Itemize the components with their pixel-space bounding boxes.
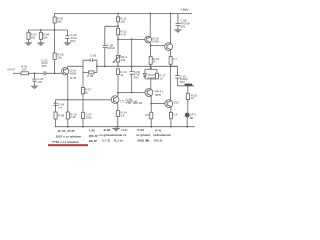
svg-text:TT80 x xx tahukan: TT80 x xx tahukan bbox=[52, 140, 79, 144]
wire Q7 emitter bbox=[150, 95, 152, 112]
svg-text:10k: 10k bbox=[57, 56, 62, 60]
wire Q5 collector to rail bbox=[149, 14, 151, 38]
svg-text:-: - bbox=[59, 118, 60, 122]
svg-text:1-08: 1-08 bbox=[89, 128, 95, 132]
svg-text:10k: 10k bbox=[120, 20, 125, 24]
resistor R-17 (bias loop right branch) bbox=[155, 69, 166, 80]
svg-text:R-09: R-09 bbox=[58, 113, 65, 117]
wire Q8 base row bbox=[151, 103, 165, 105]
svg-text:0,5: 0,5 bbox=[145, 113, 149, 117]
node input junction bbox=[34, 72, 36, 74]
diode D-01 (bias loop left branch) bbox=[143, 67, 157, 80]
resistor R-12 bbox=[117, 28, 127, 39]
svg-text:P-41: P-41 bbox=[155, 128, 162, 132]
wire bias node row bbox=[28, 30, 67, 32]
svg-text:2007 x xx tahukan: 2007 x xx tahukan bbox=[56, 134, 82, 138]
resistor R-10 (Q1 emitter to rail) bbox=[66, 112, 77, 127]
svg-text:50V: 50V bbox=[180, 80, 185, 84]
node VAS junction bbox=[117, 38, 119, 40]
wire bias to Q7 collector bbox=[150, 79, 152, 89]
svg-text:0,5: 0,5 bbox=[120, 114, 124, 118]
resistor R-07 (loop to ground chain) bbox=[82, 72, 92, 112]
capacitor C-04 bbox=[53, 103, 64, 110]
svg-text:33k: 33k bbox=[30, 36, 35, 40]
svg-text:50V: 50V bbox=[180, 24, 185, 28]
capacitor C-05 bbox=[176, 14, 191, 30]
node base junction Q1 bbox=[54, 72, 56, 74]
svg-text:50V: 50V bbox=[70, 39, 75, 43]
node bias junction bbox=[54, 29, 56, 31]
node Q8 base junction bbox=[150, 103, 152, 105]
svg-text:IN-PUT: IN-PUT bbox=[8, 69, 16, 71]
svg-text:+36V: +36V bbox=[181, 8, 190, 12]
resistor R-02 (rail dropper on left column) bbox=[53, 16, 64, 23]
resistor R-15 bbox=[149, 46, 159, 70]
wire top positive rail bbox=[55, 14, 193, 74]
svg-text:008 JP: 008 JP bbox=[89, 134, 99, 138]
resistor R-19 bbox=[169, 112, 177, 126]
node Q4 collector junction bbox=[117, 92, 119, 94]
svg-text:xxdhatahata: xxdhatahata bbox=[153, 133, 171, 137]
svg-text:5,7 Si: 5,7 Si bbox=[102, 138, 110, 142]
svg-text:GND: GND bbox=[121, 128, 127, 132]
svg-text:xx: xx bbox=[146, 138, 150, 142]
svg-text:22k: 22k bbox=[43, 36, 48, 40]
svg-text:10k: 10k bbox=[121, 58, 126, 62]
capacitor C-07 (bottom of feedback chain) bbox=[82, 112, 93, 126]
resistor R-13 bbox=[117, 69, 127, 96]
svg-text:2SC: 2SC bbox=[174, 100, 180, 104]
ground under C-05 bbox=[174, 30, 181, 32]
wire Q1 collector up to feedback node bbox=[68, 66, 83, 69]
wire Q8 emitter bbox=[170, 106, 172, 112]
svg-text:TTD ,N01-08: TTD ,N01-08 bbox=[126, 101, 143, 105]
transistor Q-07 bbox=[145, 89, 163, 97]
wire branch to C-08 bbox=[105, 26, 118, 45]
transistor Q-06 bbox=[165, 43, 173, 51]
wire output row bbox=[177, 85, 194, 87]
label OUT bbox=[185, 84, 193, 86]
resistor R-20 bbox=[186, 86, 197, 113]
svg-text:50V: 50V bbox=[42, 64, 47, 68]
wire Q6 collector to rail bbox=[170, 14, 172, 44]
svg-text:C945: C945 bbox=[152, 39, 159, 43]
wire bias loop bottom bbox=[145, 78, 157, 80]
wire Q7 base row bbox=[118, 92, 145, 94]
transistor Q-01 bbox=[62, 68, 77, 80]
svg-text:NPN: NPN bbox=[155, 93, 161, 97]
speaker SP-01 bbox=[185, 112, 196, 126]
footer text row 1 bbox=[58, 128, 162, 133]
svg-text:B8 JP: B8 JP bbox=[89, 139, 97, 143]
node input label bbox=[8, 69, 16, 71]
resistor R-08 (feedback loop bottom branch) bbox=[83, 66, 97, 78]
node Q1 emitter junction bbox=[67, 99, 69, 101]
svg-text:10: 10 bbox=[191, 96, 195, 100]
svg-text:100 Si: 100 Si bbox=[154, 138, 163, 142]
wire C-02 to Q1 base bbox=[46, 72, 62, 74]
resistor R-09 bbox=[54, 112, 65, 122]
wire Q4 emitter bbox=[117, 102, 119, 110]
wire Q-04 base row bbox=[56, 100, 112, 127]
node R-11 bottom junction bbox=[117, 25, 119, 27]
node Q7 base junction bbox=[131, 92, 133, 94]
wire input to C-02 bbox=[29, 72, 44, 74]
node loop right junction bbox=[96, 65, 98, 67]
node output junction bbox=[187, 85, 189, 87]
svg-text:4,7k: 4,7k bbox=[120, 32, 126, 36]
ground under C-01 bbox=[31, 86, 38, 88]
node compensation junction top bbox=[131, 38, 133, 40]
wire Q1 emitter down bbox=[66, 74, 68, 112]
label Q-08 bbox=[126, 98, 143, 105]
svg-text:n-5: n-5 bbox=[58, 106, 63, 110]
svg-text:100n: 100n bbox=[86, 116, 93, 120]
svg-text:2,2k: 2,2k bbox=[70, 115, 76, 119]
trimpot VR-01 bbox=[113, 39, 128, 66]
resistor R-14 bbox=[116, 111, 127, 127]
capacitor C-06 (feedback loop top branch) bbox=[83, 54, 97, 67]
resistor R-05 bbox=[53, 53, 64, 60]
resistor R-04 bbox=[39, 30, 49, 43]
capacitor C-01 bbox=[32, 73, 44, 86]
svg-text:10: 10 bbox=[159, 76, 163, 80]
capacitor C-03 bbox=[65, 30, 77, 43]
capacitor C-09 bbox=[130, 70, 141, 93]
footer text row 2 bbox=[56, 133, 171, 138]
footer text row 3 bbox=[89, 138, 163, 143]
ground under R-04 bbox=[37, 43, 44, 45]
wire bottom rail bbox=[55, 126, 195, 128]
svg-text:100: 100 bbox=[22, 68, 27, 72]
node VCC label +36V bbox=[181, 8, 190, 12]
svg-text:C-06: C-06 bbox=[90, 54, 97, 58]
transistor Q-08 bbox=[165, 100, 179, 108]
ground on bottom rail bbox=[112, 127, 127, 133]
resistor R-11 (VAS top) bbox=[117, 13, 127, 29]
svg-text:8R: 8R bbox=[190, 116, 194, 120]
transistor Q-04 bbox=[111, 96, 137, 104]
svg-text:50V: 50V bbox=[134, 75, 139, 79]
svg-text:4,7: 4,7 bbox=[173, 57, 177, 61]
capacitor C-08 bbox=[103, 43, 116, 66]
resistor R-01 bbox=[21, 65, 29, 75]
svg-text:JF-05, JT-05: JF-05, JT-05 bbox=[58, 129, 76, 133]
transistor Q-05 bbox=[145, 36, 160, 43]
svg-text:P-08: P-08 bbox=[138, 128, 145, 132]
svg-text:xx grtawdtahata xx: xx grtawdtahata xx bbox=[99, 133, 126, 137]
svg-text:100uF: 100uF bbox=[107, 46, 115, 50]
svg-text:B-08: B-08 bbox=[104, 128, 111, 132]
capacitor C-02 (series coupling) bbox=[41, 58, 48, 75]
wire input bbox=[13, 72, 21, 74]
capacitor C-10 (output bootstrap) bbox=[171, 66, 189, 86]
ground under C-03 bbox=[64, 43, 71, 45]
wire compensation vertical bbox=[131, 39, 133, 71]
resistor R-18 bbox=[145, 112, 153, 126]
svg-text:R-06: R-06 bbox=[70, 76, 77, 80]
ground under R-03 bbox=[25, 43, 32, 45]
wire mid feedback rail bbox=[97, 65, 177, 67]
svg-text:104: 104 bbox=[37, 80, 42, 84]
wire Q5 emitter to Q6 base bbox=[150, 42, 165, 45]
resistor R-03 bbox=[27, 32, 37, 43]
wire Q5 base row bbox=[118, 38, 145, 40]
svg-text:B,J xx: B,J xx bbox=[114, 138, 123, 142]
svg-text:xx grtawd: xx grtawd bbox=[136, 133, 150, 137]
svg-text:0,5: 0,5 bbox=[173, 113, 177, 117]
footer red link bbox=[48, 140, 88, 145]
svg-text:R-08: R-08 bbox=[87, 74, 94, 78]
svg-text:56k: 56k bbox=[57, 19, 62, 23]
resistor R-16 bbox=[169, 49, 177, 100]
